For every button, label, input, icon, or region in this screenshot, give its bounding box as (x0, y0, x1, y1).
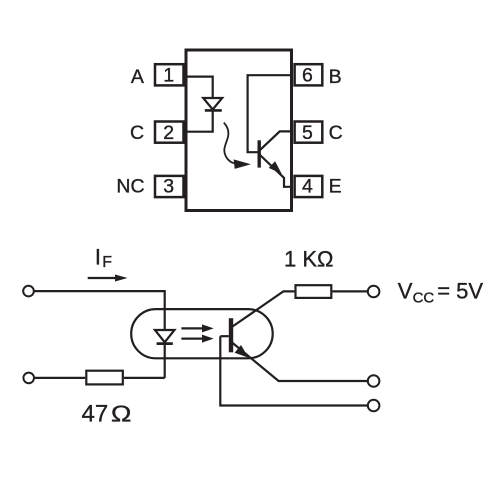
svg-text:E: E (329, 176, 342, 198)
svg-text:1 KΩ: 1 KΩ (284, 247, 333, 272)
svg-text:NC: NC (116, 176, 144, 198)
svg-text:1: 1 (163, 65, 174, 87)
svg-text:47: 47 (82, 401, 109, 428)
svg-text:Ω: Ω (111, 401, 132, 427)
svg-text:3: 3 (163, 176, 174, 198)
svg-text:F: F (102, 254, 112, 271)
svg-text:C: C (130, 122, 144, 144)
svg-text:6: 6 (302, 65, 313, 87)
svg-text:CC: CC (413, 290, 435, 307)
svg-text:V: V (398, 278, 413, 303)
svg-text:C: C (329, 122, 343, 144)
svg-text:B: B (329, 66, 342, 88)
svg-text:A: A (131, 66, 144, 88)
svg-text:I: I (95, 245, 101, 270)
svg-text:= 5V: = 5V (437, 278, 483, 303)
svg-text:4: 4 (302, 176, 313, 198)
svg-text:5: 5 (302, 122, 313, 144)
svg-text:2: 2 (163, 122, 174, 144)
